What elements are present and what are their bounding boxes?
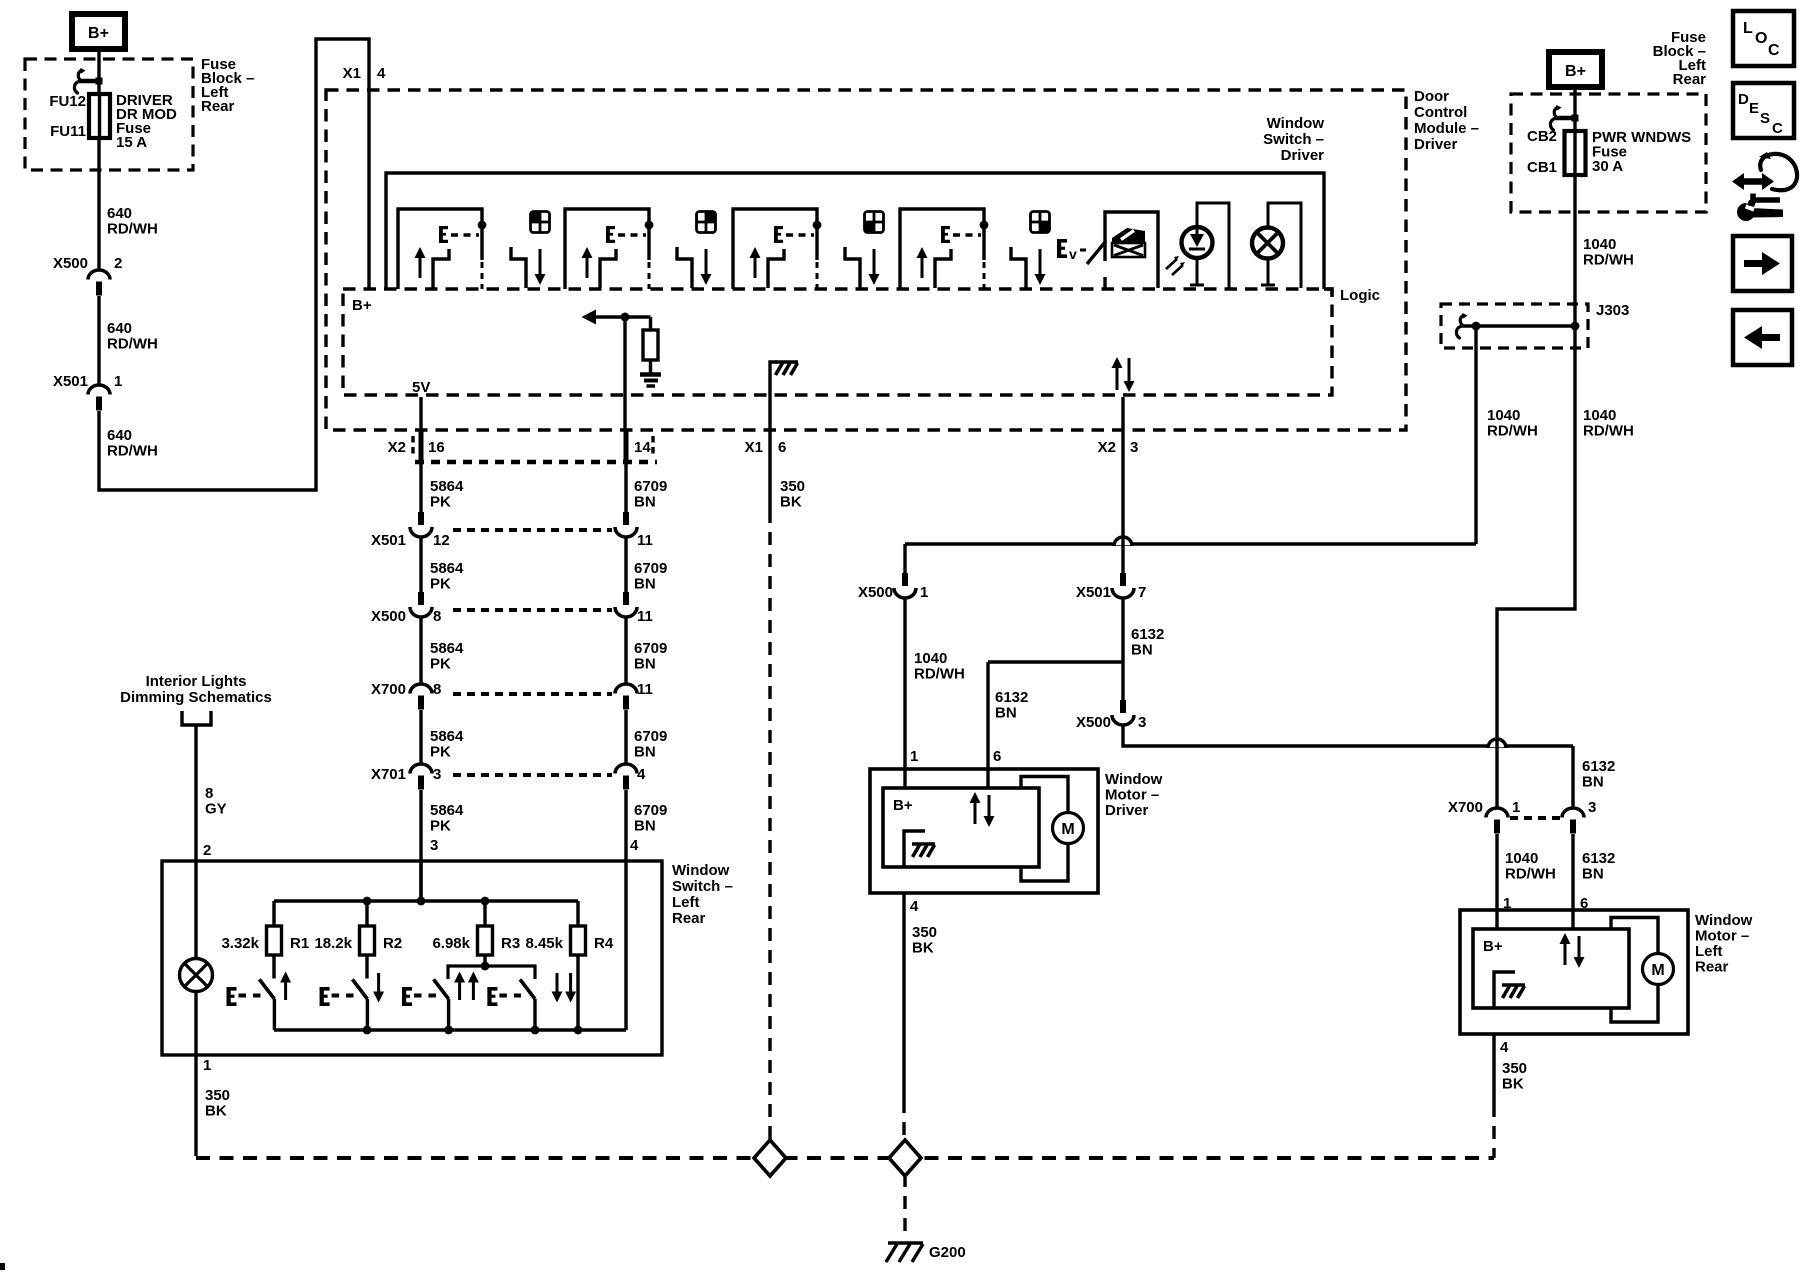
junction dot S1 xyxy=(478,221,487,230)
express window unit box xyxy=(1105,212,1158,288)
junction dots bottom bus xyxy=(363,1026,583,1035)
svg-text:8: 8 xyxy=(205,785,213,802)
R3 output bracket xyxy=(448,966,535,979)
wire X500 to X501 xyxy=(97,296,100,385)
E linkage dashes S3 xyxy=(786,233,814,237)
svg-text:8: 8 xyxy=(433,608,441,625)
wire B+ to breaker xyxy=(1573,87,1576,131)
svg-text:16: 16 xyxy=(428,439,445,456)
svg-text:M: M xyxy=(1061,821,1074,838)
svg-text:X500: X500 xyxy=(53,255,88,272)
svg-text:2: 2 xyxy=(114,255,122,272)
label 640 RD/WH (1) xyxy=(107,205,158,238)
svg-text:S: S xyxy=(1760,110,1770,127)
window motor left rear inner box xyxy=(1473,929,1629,1008)
wire 6709 BN seg1 xyxy=(624,462,627,512)
connector X501 pin 7 xyxy=(1112,573,1134,598)
svg-text:X701: X701 xyxy=(371,766,406,783)
label pin 6 (X1) xyxy=(778,439,786,456)
wire 350 BK (left rear motor) xyxy=(1492,1034,1495,1158)
resistor R4 xyxy=(571,926,586,955)
svg-text:8.45k: 8.45k xyxy=(525,935,563,952)
label CB2 xyxy=(1527,128,1557,145)
svg-text:X500: X500 xyxy=(371,608,406,625)
svg-text:640: 640 xyxy=(107,205,132,222)
door control module - driver (dashed box) xyxy=(326,90,1406,430)
label X501 (left) xyxy=(53,373,88,390)
svg-text:3: 3 xyxy=(1588,799,1596,816)
label R1 xyxy=(290,935,309,952)
svg-text:6709: 6709 xyxy=(634,640,667,657)
svg-text:1: 1 xyxy=(203,1057,211,1074)
label pin 11 b xyxy=(637,608,653,625)
connector X2 right tick xyxy=(651,436,654,457)
label R1 value xyxy=(221,935,259,952)
illumination lamp loop xyxy=(1268,203,1301,288)
label R4 value xyxy=(525,935,563,952)
svg-text:RD/WH: RD/WH xyxy=(107,443,158,460)
wire X700-1 to motor xyxy=(1495,834,1498,930)
down arrow D1 xyxy=(535,249,546,285)
svg-text:B+: B+ xyxy=(88,25,109,42)
svg-text:Window: Window xyxy=(672,862,730,879)
driver motor ground xyxy=(904,831,935,867)
svg-text:BN: BN xyxy=(1131,642,1153,659)
wire 5864 PK seg3 xyxy=(419,617,422,684)
photo LED loop xyxy=(1197,203,1229,288)
resistor top bus xyxy=(274,899,578,902)
svg-text:640: 640 xyxy=(107,320,132,337)
label fuse block left rear (right) xyxy=(1653,29,1707,88)
svg-text:CB2: CB2 xyxy=(1527,128,1557,145)
illumination lamp symbol xyxy=(1252,228,1283,259)
wire 6709 BN seg2 xyxy=(624,537,627,592)
svg-text:Control: Control xyxy=(1414,104,1467,121)
dashed line X501 row xyxy=(453,528,612,532)
switch blade S2 xyxy=(600,249,616,288)
down switch blade D1 xyxy=(511,247,526,288)
battery feed B+ (left fuse block) xyxy=(72,14,125,49)
resistor R3 leads xyxy=(483,901,486,966)
svg-text:X1: X1 xyxy=(745,439,763,456)
label E (S1 solenoid) xyxy=(439,226,448,243)
photo LED symbol xyxy=(1189,228,1205,249)
down switch blade D2 xyxy=(677,247,692,288)
svg-text:BN: BN xyxy=(995,705,1017,722)
wire 5864 PK seg1 xyxy=(419,462,422,512)
wire 6132 BN to X500-3 xyxy=(1121,598,1124,700)
label X1 (module pin) xyxy=(343,65,361,82)
label X501 (row) xyxy=(371,532,406,549)
module pin X2-14 (pin bar) xyxy=(624,431,629,462)
svg-text:PK: PK xyxy=(430,494,451,511)
label pin 6 (left rear motor) xyxy=(1580,895,1588,912)
label 1040 RD/WH (motor) xyxy=(914,650,965,683)
label 6132 BN (pin7) xyxy=(1131,626,1164,659)
connector X2 face line xyxy=(415,460,657,465)
svg-text:C: C xyxy=(1768,42,1780,59)
svg-text:PK: PK xyxy=(430,576,451,593)
junction dot S3 xyxy=(813,221,822,230)
svg-text:R2: R2 xyxy=(383,935,402,952)
svg-text:PK: PK xyxy=(430,818,451,835)
svg-text:RD/WH: RD/WH xyxy=(107,221,158,238)
svg-text:6132: 6132 xyxy=(1131,626,1164,643)
label PWR WNDWS Fuse 30A xyxy=(1592,129,1691,175)
wire breaker to J303 xyxy=(1573,175,1576,326)
resistor R3 xyxy=(478,926,493,955)
window motor left rear outer box xyxy=(1460,910,1688,1034)
svg-text:Rear: Rear xyxy=(1695,959,1729,976)
wire 350 BK (switch) xyxy=(194,1055,197,1156)
resistor R2 xyxy=(360,926,375,955)
lamp feed wire xyxy=(194,861,197,959)
icon button LOC xyxy=(1733,11,1794,66)
left rear motor direction arrows xyxy=(1560,933,1585,968)
svg-text:1040: 1040 xyxy=(1583,236,1616,253)
switch blade S3 xyxy=(768,249,784,288)
label pin 3 (X700) xyxy=(1588,799,1596,816)
svg-text:Switch –: Switch – xyxy=(1263,131,1324,148)
label 1040 RD/WH (feed) xyxy=(1583,236,1634,269)
svg-text:B+: B+ xyxy=(1565,63,1586,80)
svg-text:PK: PK xyxy=(430,744,451,761)
svg-text:Driver: Driver xyxy=(1414,136,1458,153)
wire 8 GY xyxy=(194,725,197,861)
down arrow D2 xyxy=(701,249,712,285)
connector X700 pin 1 xyxy=(1486,808,1508,833)
svg-text:3: 3 xyxy=(430,837,438,854)
wire X700-3 to motor xyxy=(1571,834,1574,930)
svg-text:1: 1 xyxy=(920,584,928,601)
svg-text:Interior Lights: Interior Lights xyxy=(146,673,247,690)
label Logic xyxy=(1324,287,1380,304)
svg-text:1: 1 xyxy=(910,748,918,765)
svg-text:BK: BK xyxy=(780,494,802,511)
svg-text:2: 2 xyxy=(203,842,211,859)
photo LED circle xyxy=(1182,227,1213,258)
svg-text:6: 6 xyxy=(778,439,786,456)
connector X500 pin 3 xyxy=(1112,700,1134,725)
svg-text:RD/WH: RD/WH xyxy=(1583,423,1634,440)
svg-text:Logic: Logic xyxy=(1340,287,1380,304)
svg-text:6.98k: 6.98k xyxy=(432,935,470,952)
svg-text:BN: BN xyxy=(634,744,656,761)
junction dot pull-up xyxy=(621,313,630,322)
window motor driver outer box xyxy=(870,769,1098,893)
switch blade S4 xyxy=(935,249,951,288)
window position indicator 1 (checkerboard) xyxy=(531,212,550,233)
svg-text:BK: BK xyxy=(1502,1076,1524,1093)
label X2 (right) xyxy=(1098,439,1116,456)
label B+ (left rear motor) xyxy=(1483,938,1503,955)
svg-text:RD/WH: RD/WH xyxy=(914,666,965,683)
svg-text:1040: 1040 xyxy=(914,650,947,667)
svg-text:BN: BN xyxy=(634,818,656,835)
splice diamond (G200 tap) xyxy=(889,1140,921,1176)
window up switch S1 box xyxy=(398,209,482,289)
svg-text:CB1: CB1 xyxy=(1527,159,1557,176)
svg-text:3: 3 xyxy=(433,766,441,783)
up arrow S2 xyxy=(582,247,593,278)
wire 5864 PK seg2 xyxy=(419,537,422,592)
svg-text:4: 4 xyxy=(630,837,639,854)
label X701 (row) xyxy=(371,766,406,783)
svg-text:Left: Left xyxy=(1695,943,1723,960)
label fuse block left rear (left) xyxy=(201,56,254,115)
switch SW4 (express down) xyxy=(487,973,576,1030)
left rear motor M circle xyxy=(1643,954,1674,985)
svg-text:B+: B+ xyxy=(893,797,913,814)
driver motor direction arrows xyxy=(970,792,995,827)
svg-text:BN: BN xyxy=(634,576,656,593)
label X700 (right) xyxy=(1448,799,1483,816)
svg-text:X700: X700 xyxy=(371,681,406,698)
label 1040 RD/WH (branch right) xyxy=(1583,407,1634,440)
svg-text:5V: 5V xyxy=(412,379,430,396)
label pin 6 (driver motor) xyxy=(993,748,1001,765)
label pin 1 xyxy=(114,373,122,390)
label R4 xyxy=(594,935,614,952)
wire 5864 PK seg4 xyxy=(419,710,422,764)
switch SW3 (express up) xyxy=(402,972,479,1031)
svg-text:Driver: Driver xyxy=(1281,147,1325,164)
lamp to pin1 wire xyxy=(194,992,197,1056)
label 350 BK (driver motor) xyxy=(912,924,937,957)
label G200 xyxy=(929,1244,966,1261)
svg-text:X2: X2 xyxy=(388,439,406,456)
wire 5864 PK seg5 xyxy=(419,790,422,901)
svg-text:1040: 1040 xyxy=(1505,850,1538,867)
label pin 4 a xyxy=(637,766,646,783)
wire X501 to door module X1-4 xyxy=(99,39,369,490)
label E (S2 solenoid) xyxy=(606,226,615,243)
window switch - left rear box xyxy=(162,861,662,1055)
label E (S4 solenoid) xyxy=(941,226,950,243)
label 6132 BN (branch) xyxy=(995,689,1028,722)
svg-text:RD/WH: RD/WH xyxy=(1505,866,1556,883)
label pin 4 (driver motor) xyxy=(910,898,919,915)
wire 350 BK (driver motor) xyxy=(902,893,905,1140)
svg-text:6709: 6709 xyxy=(634,560,667,577)
svg-text:C: C xyxy=(1772,120,1783,137)
svg-text:30 A: 30 A xyxy=(1592,158,1623,175)
svg-text:18.2k: 18.2k xyxy=(314,935,352,952)
connector X500 row (left col) xyxy=(410,592,637,617)
dashed line X700 right row xyxy=(1510,816,1560,820)
splice diamond (left) xyxy=(754,1140,786,1176)
svg-text:11: 11 xyxy=(637,608,653,625)
crossover hump (6132 over 1040) xyxy=(1114,536,1132,546)
label R2 value xyxy=(314,935,352,952)
svg-text:Module –: Module – xyxy=(1414,120,1479,137)
label 350 BK (switch) xyxy=(205,1087,230,1120)
junction dots top bus xyxy=(363,897,490,906)
label 8 GY xyxy=(205,785,227,818)
label 5864 PK (4) xyxy=(430,728,464,761)
svg-text:O: O xyxy=(1755,30,1767,47)
icon double arrow xyxy=(1732,173,1774,190)
label 350 BK (X1-6) xyxy=(780,478,805,511)
label pin 3 a xyxy=(433,766,441,783)
svg-text:GY: GY xyxy=(205,801,227,818)
resistor R1 leads xyxy=(272,901,275,979)
wire fuse to X500 pin 2 xyxy=(97,138,100,270)
window glass icon xyxy=(1112,228,1145,257)
R3 junction dot xyxy=(481,962,490,971)
label DRIVER DR MOD Fuse 15A xyxy=(116,92,177,151)
svg-text:350: 350 xyxy=(780,478,805,495)
svg-text:Motor –: Motor – xyxy=(1105,787,1159,804)
icon wrench xyxy=(1737,200,1783,221)
interior lights off-page bracket xyxy=(182,711,211,725)
label 1040 RD/WH (branch left) xyxy=(1487,407,1538,440)
svg-text:M: M xyxy=(1651,962,1664,979)
window motor driver inner box xyxy=(883,788,1039,867)
earth ground (logic) xyxy=(640,375,661,387)
label window motor driver xyxy=(1105,771,1163,819)
resistor R1 xyxy=(267,926,282,955)
Ev linkage dash xyxy=(1080,249,1088,252)
wire 6709 BN seg3 xyxy=(624,617,627,684)
label Ev (express switch) xyxy=(1057,239,1077,262)
label pin 11 c xyxy=(637,681,653,698)
label X1 (row 1) xyxy=(745,439,763,456)
svg-text:RD/WH: RD/WH xyxy=(107,336,158,353)
icon button DESC xyxy=(1733,83,1794,138)
svg-text:BN: BN xyxy=(634,656,656,673)
wire 6709 BN seg4 xyxy=(624,710,627,764)
svg-text:RD/WH: RD/WH xyxy=(1583,252,1634,269)
label 6709 BN (1) xyxy=(634,478,667,511)
svg-text:3: 3 xyxy=(1130,439,1138,456)
label pin 3 (motor) xyxy=(1138,714,1146,731)
down switch blade D4 xyxy=(1011,247,1026,288)
label 6132 BN (right rear) xyxy=(1582,758,1615,791)
svg-text:6709: 6709 xyxy=(634,728,667,745)
J303 terminal hook xyxy=(1456,313,1467,338)
E linkage dashes S4 xyxy=(953,233,981,237)
fuse block - left rear (dashed box, left) xyxy=(25,59,193,170)
connector X501 pin 1 xyxy=(88,385,110,410)
svg-text:640: 640 xyxy=(107,427,132,444)
splice pack J303 (dashed box) xyxy=(1441,304,1588,348)
dashed line X500 row xyxy=(453,608,612,612)
window position indicator 3 (checkerboard) xyxy=(865,212,884,233)
label pin 1 (driver motor) xyxy=(910,748,918,765)
label interior lights dimming schematics xyxy=(120,673,272,706)
wire 6132 BN drop xyxy=(1571,746,1574,808)
junction dot S2 xyxy=(645,221,654,230)
switch SW2 (down) xyxy=(320,973,385,1030)
wire B+ to fuse FU12 xyxy=(97,49,100,95)
label pin 1 (X700) xyxy=(1512,799,1520,816)
label 640 RD/WH (3) xyxy=(107,427,158,460)
svg-text:7: 7 xyxy=(1138,584,1146,601)
up arrow S1 xyxy=(415,247,426,278)
connector X700 row (left col) xyxy=(410,684,637,710)
J303 internal bus xyxy=(1460,324,1575,327)
label 6709 BN (5) xyxy=(634,802,667,835)
label 5864 PK (3) xyxy=(430,640,464,673)
connector X500 pin 2 xyxy=(88,270,110,296)
svg-text:14: 14 xyxy=(634,439,651,456)
ground G200 symbol xyxy=(886,1243,923,1262)
svg-text:12: 12 xyxy=(433,532,450,549)
svg-text:PK: PK xyxy=(430,656,451,673)
label pin 8 b xyxy=(433,681,441,698)
label J303 xyxy=(1596,302,1629,319)
svg-text:4: 4 xyxy=(637,766,646,783)
junction dot S4 xyxy=(980,221,989,230)
svg-text:BN: BN xyxy=(1582,866,1604,883)
ground drop to G200 xyxy=(903,1174,906,1240)
svg-text:6709: 6709 xyxy=(634,478,667,495)
svg-text:X501: X501 xyxy=(53,373,88,390)
wire 6132 BN from X2-3 xyxy=(1121,397,1124,573)
svg-text:Dimming Schematics: Dimming Schematics xyxy=(120,689,272,706)
wire 350 BK X1-6 (dashed) xyxy=(768,510,771,1140)
window up switch S4 box xyxy=(900,209,984,289)
label X500 (row) xyxy=(371,608,406,625)
svg-text:BK: BK xyxy=(912,940,934,957)
svg-text:1: 1 xyxy=(114,373,122,390)
photo LED lower lead xyxy=(1190,259,1204,285)
svg-text:G200: G200 xyxy=(929,1244,966,1261)
svg-text:3.32k: 3.32k xyxy=(221,935,259,952)
label pin 16 xyxy=(428,439,445,456)
motor drive arrows (module output) xyxy=(1112,357,1135,392)
svg-text:B+: B+ xyxy=(352,297,372,314)
label 6709 BN (2) xyxy=(634,560,667,593)
chassis ground wire (X1-6) xyxy=(770,362,777,510)
wire 1040 RD/WH branch right xyxy=(1497,326,1575,808)
svg-text:FU12: FU12 xyxy=(49,93,86,110)
label CB1 xyxy=(1527,159,1557,176)
label R3 value xyxy=(432,935,470,952)
svg-text:6132: 6132 xyxy=(1582,758,1615,775)
label window motor left rear xyxy=(1695,912,1753,976)
down switch blade D3 xyxy=(845,247,860,288)
window switch - driver inner dashed box xyxy=(343,289,1332,395)
label E (S3 solenoid) xyxy=(774,226,783,243)
label 5864 PK (2) xyxy=(430,560,464,593)
label X500 (left) xyxy=(53,255,88,272)
label pin 1 (motor feed) xyxy=(920,584,928,601)
wire 5V output to X2-16 xyxy=(419,397,422,431)
chassis ground (logic) xyxy=(775,362,798,375)
label window switch left rear xyxy=(672,862,733,927)
switch bottom bus xyxy=(274,1028,626,1031)
svg-text:B+: B+ xyxy=(1483,938,1503,955)
label pin 14 xyxy=(634,439,651,456)
connector X701 row (left col) xyxy=(410,764,637,790)
ground bus dashed xyxy=(196,1156,1494,1160)
label pin 1 (left rear motor) xyxy=(1503,895,1511,912)
label 6709 BN (4) xyxy=(634,728,667,761)
label B+ (module internal) xyxy=(352,297,372,314)
pull-up resistor xyxy=(643,330,658,360)
label pin 4 entering switch xyxy=(630,837,639,854)
connector X500 pin 1 xyxy=(894,573,916,598)
svg-text:3: 3 xyxy=(1138,714,1146,731)
svg-text:5864: 5864 xyxy=(430,560,464,577)
svg-text:5864: 5864 xyxy=(430,478,464,495)
label 5864 PK (5) xyxy=(430,802,464,835)
svg-text:6709: 6709 xyxy=(634,802,667,819)
down arrow D4 xyxy=(1035,249,1046,285)
svg-text:Rear: Rear xyxy=(201,98,235,115)
